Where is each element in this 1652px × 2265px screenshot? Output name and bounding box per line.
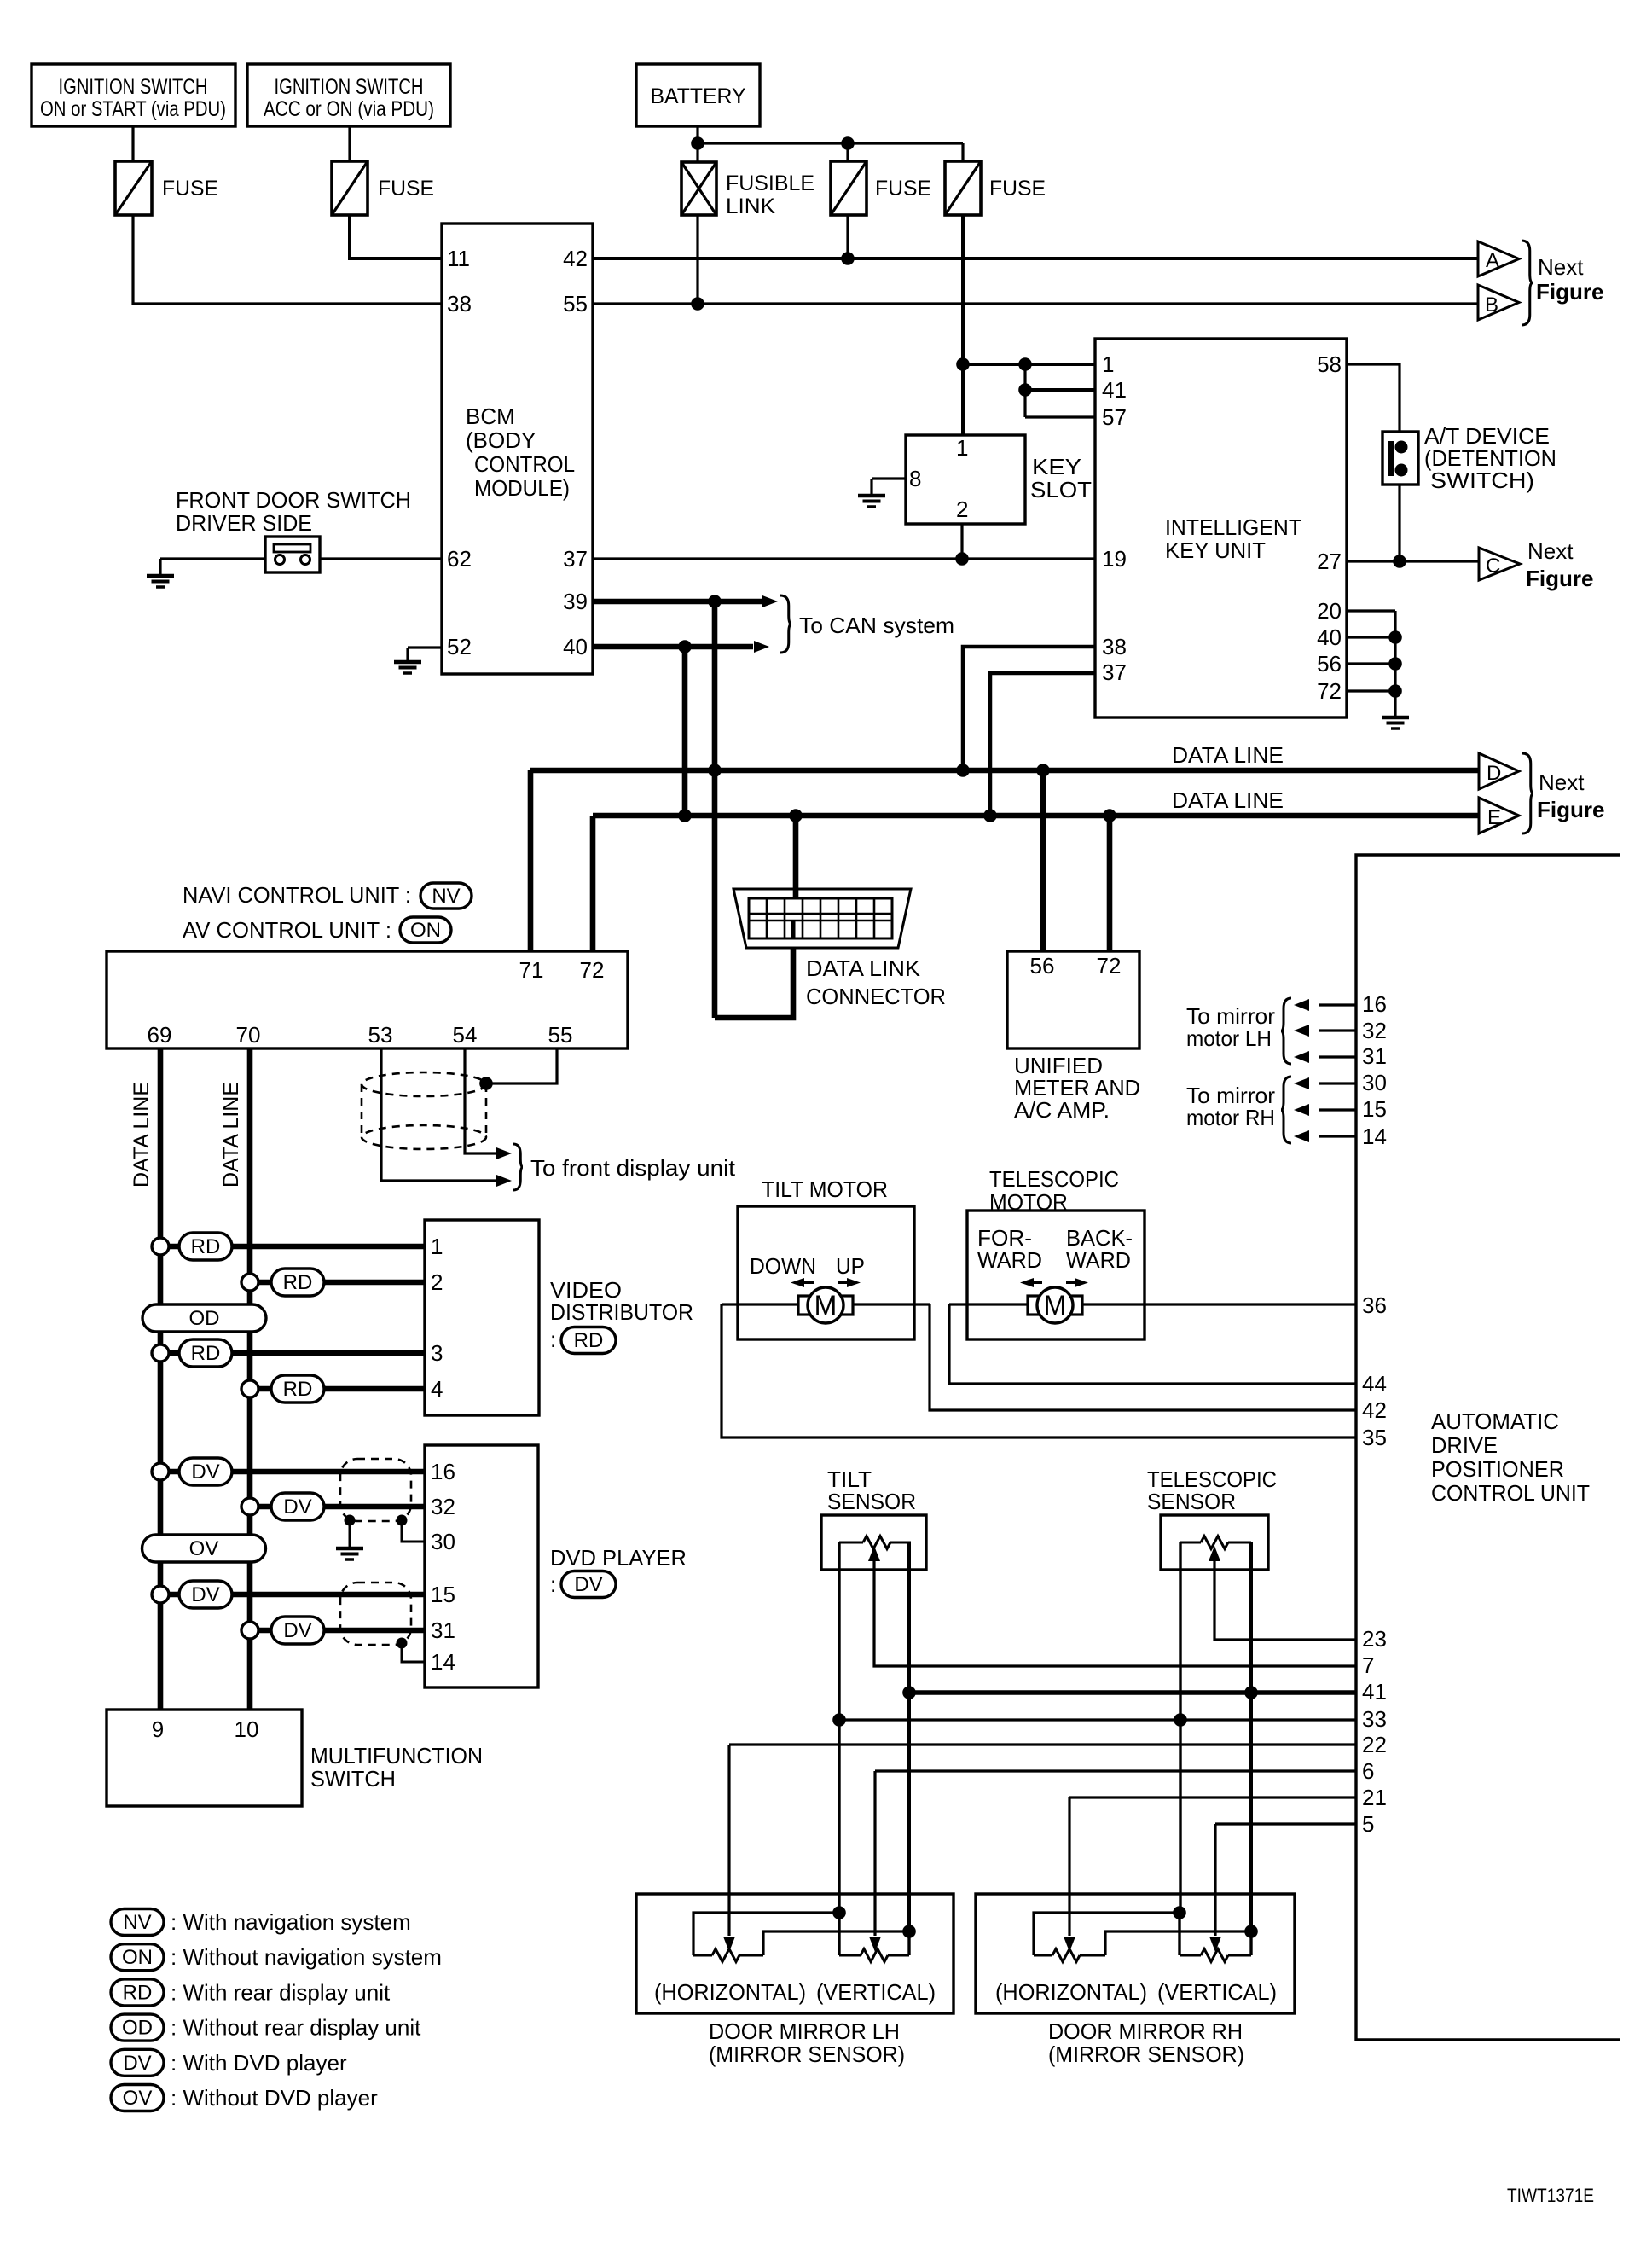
svg-text:57: 57 (1102, 404, 1127, 430)
wire 6: ADP to LH vertical wiper (875, 1769, 1356, 1772)
svg-text:19: 19 (1102, 546, 1127, 572)
wire: telescopic motor to ADP pin 44 (949, 1304, 1356, 1384)
svg-text:14: 14 (1362, 1124, 1387, 1149)
svg-text:72: 72 (1097, 953, 1122, 979)
arrow forward direction (1020, 1278, 1034, 1287)
door mirror LH box (636, 1894, 954, 2013)
svg-text:37: 37 (1102, 659, 1127, 685)
node: junction on CAN 40 (678, 640, 692, 653)
wire 33: sensor supply to ADP (838, 1718, 1356, 1721)
svg-text:38: 38 (1102, 634, 1127, 659)
svg-text:40: 40 (1317, 624, 1342, 650)
svg-text:54: 54 (453, 1022, 478, 1048)
wire: to IKU pin 41 (1025, 388, 1095, 392)
wire A: BCM pin 42 to next figure (593, 257, 1478, 260)
svg-text:motor RH: motor RH (1186, 1105, 1275, 1130)
LH vertical wiper arrow (869, 1937, 881, 1952)
svg-text:7: 7 (1362, 1652, 1374, 1678)
svg-text:SLOT: SLOT (1030, 477, 1092, 502)
ground: IKU pins (1382, 716, 1409, 720)
svg-text:BCM: BCM (466, 404, 515, 429)
svg-text:35: 35 (1362, 1425, 1387, 1450)
svg-text:55: 55 (548, 1022, 573, 1048)
svg-text:16: 16 (431, 1459, 455, 1484)
motor M telescopic (1028, 1296, 1040, 1315)
node: junctions on data line E (678, 809, 692, 822)
wire 27: IKU to next figure C (1347, 560, 1479, 562)
svg-text:NV: NV (432, 885, 460, 908)
svg-text:11: 11 (447, 246, 470, 271)
svg-text:MODULE): MODULE) (474, 475, 570, 501)
LH horizontal wiper arrow (723, 1937, 735, 1952)
svg-text:A/C AMP.: A/C AMP. (1014, 1097, 1110, 1123)
LH pot right link (763, 1931, 909, 1955)
brace: to mirror motor RH (1281, 1077, 1291, 1143)
svg-text:WARD: WARD (1066, 1247, 1131, 1273)
svg-text:41: 41 (1102, 377, 1127, 403)
wire: BCM pin 40 CAN line with arrow (593, 644, 753, 650)
svg-text:TELESCOPIC: TELESCOPIC (989, 1166, 1119, 1192)
wire 7: tilt wiper to ADP (874, 1561, 1356, 1666)
svg-text:53: 53 (368, 1022, 393, 1048)
wire: A/T device to wire 27 (1398, 485, 1400, 561)
fuse F1 (115, 161, 152, 215)
wire 55: AV unit to shield (486, 1048, 557, 1083)
svg-text:FUSIBLE: FUSIBLE (726, 171, 814, 195)
svg-text:23: 23 (1362, 1626, 1387, 1652)
svg-text:Figure: Figure (1537, 797, 1604, 822)
svg-text:15: 15 (431, 1582, 455, 1607)
svg-text:15: 15 (1362, 1096, 1387, 1122)
wires: IKU pins 20/40/56/72 to ground (1347, 609, 1395, 612)
RH: supply link wire (1034, 1913, 1180, 1955)
svg-text:ON: ON (410, 919, 441, 942)
svg-text:IGNITION SWITCH: IGNITION SWITCH (275, 75, 424, 99)
LH vertical potentiometer (838, 1913, 840, 1955)
svg-text:21: 21 (1362, 1785, 1387, 1810)
svg-text:DATA LINK: DATA LINK (806, 955, 921, 981)
telescopic motor box (967, 1211, 1145, 1339)
svg-text:1: 1 (431, 1234, 443, 1259)
node: shield to pin 30 tap (397, 1515, 408, 1526)
tilt sensor box (821, 1515, 926, 1570)
svg-text:CONTROL UNIT: CONTROL UNIT (1431, 1480, 1590, 1506)
svg-text:KEY UNIT: KEY UNIT (1165, 537, 1266, 563)
telescopic sensor box (1161, 1515, 1268, 1570)
multifunction switch box (107, 1710, 302, 1806)
wire 69: AV unit to multifunction switch pin 9 (158, 1048, 164, 1710)
node: ground bus junctions (1388, 630, 1402, 644)
svg-text:Figure: Figure (1536, 279, 1603, 305)
data line E (593, 813, 1478, 819)
svg-text:E: E (1487, 806, 1501, 829)
label: data line vertical 69 (130, 1082, 154, 1188)
svg-text:2: 2 (431, 1269, 443, 1295)
wire: IKU pin 37 to data line E (990, 673, 1095, 816)
svg-text:31: 31 (431, 1617, 455, 1643)
unified meter and a/c amp box (1007, 951, 1139, 1048)
arrow D to next figure (1479, 753, 1519, 789)
option oval NV (420, 883, 472, 909)
svg-text:9: 9 (152, 1716, 164, 1742)
wire: tilt motor leads (722, 1303, 798, 1305)
svg-text:1: 1 (1102, 351, 1114, 377)
svg-text:B: B (1485, 293, 1498, 317)
branch DV to DVD player pin 15 (152, 1586, 169, 1603)
telescopic sensor potentiometer (1180, 1542, 1201, 1544)
svg-text:44: 44 (1362, 1371, 1387, 1397)
svg-text:: Without DVD player: : Without DVD player (171, 2085, 378, 2111)
RH horizontal potentiometer (1034, 1954, 1052, 1957)
A/T device (detention switch) box (1382, 432, 1418, 485)
RH vertical potentiometer (1178, 1913, 1180, 1955)
branch DV to DVD player pin 16 (152, 1463, 169, 1480)
svg-text:C: C (1486, 555, 1500, 578)
svg-text:(VERTICAL): (VERTICAL) (1157, 1979, 1277, 2005)
wire: BCM 37 to key slot 2 / intelligent key unit 19 (593, 557, 1095, 560)
wire B: BCM pin 55 to next figure (593, 302, 1478, 305)
svg-text:3: 3 (431, 1340, 443, 1366)
svg-text::: : (550, 1571, 556, 1597)
svg-text:OD: OD (189, 1307, 220, 1330)
svg-text:32: 32 (1362, 1018, 1387, 1043)
svg-text:10: 10 (235, 1716, 259, 1742)
svg-text:OD: OD (122, 2017, 153, 2040)
wire 41: sensor supply to ADP (909, 1690, 1356, 1695)
svg-text:ON: ON (122, 1946, 153, 1969)
svg-text:M: M (814, 1290, 838, 1321)
wire: data line E to unified meter pin 72 (1107, 816, 1113, 951)
svg-text:DOOR MIRROR RH: DOOR MIRROR RH (1048, 2018, 1243, 2044)
arrow A to next figure (1478, 241, 1519, 276)
wire: BCM pin 52 to ground (408, 646, 442, 648)
option oval ON (400, 917, 451, 943)
arrow down direction (791, 1278, 804, 1287)
svg-text:RD: RD (574, 1329, 604, 1352)
svg-text:33: 33 (1362, 1706, 1387, 1732)
svg-text:KEY: KEY (1032, 454, 1081, 479)
svg-text:DV: DV (283, 1495, 311, 1519)
svg-text:: Without navigation system: : Without navigation system (171, 1944, 442, 1970)
legend oval ON (111, 1944, 164, 1971)
wire: telescopic motor to ADP pin 36 (1082, 1303, 1356, 1305)
legend oval OV (111, 2085, 164, 2111)
svg-text:56: 56 (1317, 651, 1342, 677)
data link connector symbol (733, 889, 911, 948)
wire: tilt motor to ADP pin 42 (930, 1304, 1356, 1410)
wire 70: AV unit to multifunction switch pin 10 (247, 1048, 253, 1710)
video distributor box (425, 1220, 539, 1415)
svg-text:UP: UP (836, 1253, 865, 1279)
svg-text:(HORIZONTAL): (HORIZONTAL) (995, 1979, 1147, 2005)
svg-text:WARD: WARD (977, 1247, 1042, 1273)
node: wire41 junctions (902, 1686, 916, 1699)
svg-text:DRIVER SIDE: DRIVER SIDE (176, 510, 312, 536)
svg-text:31: 31 (1362, 1043, 1387, 1069)
svg-text:27: 27 (1317, 549, 1342, 574)
RH vertical wiper arrow (1209, 1937, 1221, 1952)
svg-text:LINK: LINK (726, 195, 775, 218)
intelligent key unit box (1095, 339, 1347, 717)
wire 21: ADP to RH horizontal wiper (1069, 1796, 1356, 1798)
svg-text:30: 30 (1362, 1070, 1387, 1095)
node: wire33 junctions (832, 1713, 846, 1727)
svg-text:OV: OV (189, 1537, 219, 1560)
node: shield junction (479, 1077, 493, 1090)
svg-text:72: 72 (580, 957, 605, 983)
svg-text:RD: RD (191, 1235, 221, 1258)
fuse F3 (831, 161, 867, 215)
ground: BCM pin 52 (394, 660, 421, 665)
svg-text:14: 14 (431, 1649, 455, 1675)
svg-text:CONTROL: CONTROL (474, 451, 575, 477)
branch DV to DVD player pin 32 (241, 1498, 258, 1515)
tilt motor box (738, 1206, 914, 1339)
svg-text:INTELLIGENT: INTELLIGENT (1165, 514, 1301, 540)
legend oval DV (111, 2049, 164, 2076)
wire: shield to DVD pin 30 (402, 1520, 425, 1542)
svg-text:DISTRIBUTOR: DISTRIBUTOR (550, 1299, 693, 1325)
node: key slot pin 2 junction (955, 552, 969, 566)
node: shield ground tap (345, 1515, 356, 1526)
wires: to mirror motor RH pins 30/15/14 (1319, 1082, 1356, 1084)
option oval DV label (561, 1571, 616, 1598)
svg-text:38: 38 (447, 291, 472, 317)
wire: telescopic motor leads (949, 1303, 1028, 1305)
legend oval OD (111, 2014, 164, 2041)
node: junction on wire 27 (1393, 555, 1406, 568)
arrow C to next figure (1479, 548, 1520, 580)
svg-text:42: 42 (1362, 1397, 1387, 1423)
svg-text:30: 30 (431, 1529, 455, 1554)
wire 53 through shield to front display (381, 1048, 496, 1181)
svg-text:70: 70 (236, 1022, 261, 1048)
svg-text:8: 8 (909, 466, 921, 491)
node: RH right link junction (1244, 1925, 1258, 1938)
wire: fuse F1 to BCM pin 38 (133, 215, 442, 304)
svg-text:FUSE: FUSE (989, 177, 1046, 200)
branch RD to video distributor pin 1 (152, 1238, 169, 1255)
branch RD to video distributor pin 4 (241, 1380, 258, 1397)
wire: IKU pin 58 to A/T device (1347, 364, 1400, 432)
svg-text:FUSE: FUSE (162, 177, 218, 200)
arrow B to next figure (1478, 285, 1519, 320)
shield around DVD 15/31 (dashed) (340, 1583, 411, 1645)
svg-text:DVD PLAYER: DVD PLAYER (550, 1545, 687, 1571)
svg-text:4: 4 (431, 1376, 443, 1402)
node: junction at fuse F3 top (841, 136, 855, 150)
AV/NAVI control unit box (107, 951, 628, 1048)
fuse F4 (961, 143, 964, 161)
node: LH supply junction (832, 1906, 846, 1919)
arrow E to next figure (1479, 798, 1519, 833)
svg-text:FUSE: FUSE (875, 177, 931, 200)
svg-text:motor LH: motor LH (1186, 1025, 1272, 1051)
wire: CAN 39 drop to data line D and data link connector (712, 601, 718, 1018)
svg-text:RD: RD (123, 1981, 153, 2004)
svg-text:55: 55 (563, 291, 588, 317)
svg-text:Figure: Figure (1526, 566, 1593, 591)
wire: drop to pin 41/57 (1023, 364, 1026, 417)
battery box (636, 64, 760, 126)
node: LH right link junction (902, 1925, 916, 1938)
BCM (body control module) box (442, 224, 593, 674)
wire: tilt sensor left lead down (838, 1542, 840, 1913)
wire: key slot pin 8 to ground (872, 477, 906, 479)
svg-text:DATA LINE: DATA LINE (130, 1082, 154, 1188)
arrow backward direction (1075, 1278, 1088, 1287)
svg-text:NAVI CONTROL UNIT :: NAVI CONTROL UNIT : (183, 882, 411, 908)
svg-text:: With navigation system: : With navigation system (171, 1909, 411, 1935)
svg-text::: : (550, 1327, 556, 1352)
wire: ignition 1 to fuse F1 (131, 126, 134, 161)
svg-text:DATA LINE: DATA LINE (219, 1082, 243, 1188)
svg-text:SWITCH: SWITCH (310, 1766, 396, 1792)
svg-text:DV: DV (283, 1619, 311, 1642)
svg-text:FRONT DOOR SWITCH: FRONT DOOR SWITCH (176, 487, 411, 513)
svg-text:ACC or ON (via PDU): ACC or ON (via PDU) (264, 97, 434, 121)
svg-text:DV: DV (191, 1583, 219, 1606)
wire: junction to IKU pin 1 (963, 363, 1095, 366)
svg-text:To front display unit: To front display unit (530, 1155, 736, 1181)
fusible link (681, 162, 716, 215)
wire: to IKU pin 57 (1025, 415, 1095, 418)
front door switch symbol (265, 537, 320, 572)
svg-text:TILT MOTOR: TILT MOTOR (762, 1176, 888, 1202)
wire: data link connector return to data line D (715, 921, 793, 1018)
svg-text:58: 58 (1317, 351, 1342, 377)
ground: door switch (159, 559, 161, 576)
svg-text:72: 72 (1317, 678, 1342, 704)
wire 5: ADP to RH vertical wiper (1215, 1822, 1356, 1825)
node: junction to intelligent key unit pin 1 (956, 357, 970, 371)
svg-text:DV: DV (574, 1573, 602, 1596)
svg-text:AUTOMATIC: AUTOMATIC (1431, 1408, 1559, 1434)
svg-text:62: 62 (447, 546, 472, 572)
wire 23: telescopic wiper to ADP (1214, 1561, 1356, 1640)
wire: ground to door switch (160, 557, 265, 560)
svg-text:FUSE: FUSE (378, 177, 434, 200)
wire: key slot pin 2 drop (960, 524, 963, 559)
ground: key slot pin 8 (858, 494, 885, 498)
wire: data line E drop to AV control unit pin 72 (590, 816, 596, 951)
svg-text:6: 6 (1362, 1758, 1374, 1784)
svg-text:NV: NV (123, 1911, 151, 1934)
svg-text:DATA LINE: DATA LINE (1172, 787, 1284, 813)
wire 54 through shield to front display (465, 1048, 496, 1153)
svg-text:RD: RD (283, 1378, 313, 1401)
svg-text:41: 41 (1362, 1679, 1387, 1705)
fuse F2 (332, 161, 368, 215)
svg-text:SENSOR: SENSOR (827, 1489, 916, 1514)
node: junctions on data line D (708, 764, 722, 777)
node: junction pin41 (1018, 383, 1032, 397)
LH: supply link wire (693, 1913, 839, 1955)
svg-text:DATA LINE: DATA LINE (1172, 742, 1284, 768)
wire: tilt sensor right lead down (907, 1542, 911, 1931)
svg-text:36: 36 (1362, 1292, 1387, 1318)
brace: to front display unit (513, 1144, 523, 1190)
wire: telescopic sensor left lead down (1179, 1542, 1181, 1913)
svg-text:5: 5 (1362, 1811, 1374, 1837)
wire: shield to DVD pin 14 (402, 1643, 425, 1662)
branch RD to video distributor pin 3 (152, 1344, 169, 1362)
svg-text:22: 22 (1362, 1732, 1387, 1757)
RH horizontal wiper arrow (1064, 1937, 1075, 1952)
wire: data line E to data link connector (793, 816, 799, 900)
svg-text:IGNITION SWITCH: IGNITION SWITCH (59, 75, 208, 99)
svg-text:16: 16 (1362, 991, 1387, 1017)
branch RD to video distributor pin 2 (241, 1274, 258, 1291)
shield cylinder (dashed) (362, 1072, 486, 1096)
legend oval NV (111, 1909, 164, 1936)
svg-text:DRIVE: DRIVE (1431, 1432, 1498, 1458)
svg-text:M: M (1044, 1290, 1067, 1321)
wire: data line D to unified meter pin 56 (1040, 770, 1046, 951)
svg-text:Next: Next (1538, 254, 1584, 280)
wire: IKU pin 38 to data line D (963, 647, 1095, 770)
node: battery junction (691, 136, 704, 150)
automatic drive positioner control unit box (open right) (1356, 855, 1620, 2040)
branch DV to DVD player pin 31 (241, 1622, 258, 1639)
node: junction on CAN 39 (708, 595, 722, 608)
wire: ignition 2 to fuse F2 (348, 126, 351, 161)
wire 22: ADP to LH horizontal wiper (729, 1743, 1356, 1745)
brace: next figure D/E (1522, 753, 1533, 833)
svg-text:AV CONTROL UNIT :: AV CONTROL UNIT : (183, 917, 391, 943)
wire: fuse F3 to wire 42 (846, 215, 849, 258)
svg-text:40: 40 (563, 634, 588, 659)
shield around DVD 16/32 (dashed) (340, 1459, 411, 1521)
svg-text:: With DVD player: : With DVD player (171, 2050, 347, 2076)
svg-text:BATTERY: BATTERY (651, 84, 746, 108)
ignition switch source 1 box (32, 64, 235, 126)
svg-text:DOOR MIRROR LH: DOOR MIRROR LH (709, 2018, 900, 2044)
svg-text:20: 20 (1317, 598, 1342, 624)
wire: tilt motor to ADP pin 35 (722, 1304, 1356, 1437)
svg-text:(VERTICAL): (VERTICAL) (816, 1979, 936, 2005)
option oval OD (across both data lines) (142, 1304, 266, 1332)
legend oval RD (111, 1979, 164, 2006)
svg-text:56: 56 (1030, 953, 1055, 979)
node: junction on wire 55 (691, 297, 704, 311)
svg-text:CONNECTOR: CONNECTOR (806, 984, 946, 1009)
svg-text:(MIRROR SENSOR): (MIRROR SENSOR) (1048, 2041, 1244, 2067)
node: junction on wire 42 (841, 252, 855, 265)
node: shield to pin 14 tap (397, 1638, 408, 1649)
brace: next figure A/B (1522, 241, 1533, 325)
wire: feed to fuse F3 (846, 143, 849, 161)
svg-text:71: 71 (519, 957, 544, 983)
wire: telescopic sensor right lead down (1249, 1542, 1253, 1931)
wire: BCM pin 39 CAN line with arrow (593, 599, 762, 605)
svg-text:37: 37 (563, 546, 588, 572)
svg-text:2: 2 (956, 497, 968, 522)
svg-text:POSITIONER: POSITIONER (1431, 1456, 1564, 1482)
svg-text:To CAN system: To CAN system (799, 613, 954, 638)
DVD player box (425, 1445, 538, 1687)
option oval RD label (561, 1327, 616, 1354)
wire: fuse F2 to BCM pin 11 (350, 215, 442, 258)
tilt sensor potentiometer (839, 1542, 863, 1544)
ignition switch source 2 box (247, 64, 450, 126)
svg-text:52: 52 (447, 634, 472, 659)
svg-text:Next: Next (1527, 538, 1574, 564)
node: junction pin1/41 (1018, 357, 1032, 371)
svg-text:39: 39 (563, 589, 588, 614)
svg-text:RD: RD (283, 1271, 313, 1294)
wire: data line D drop to AV control unit pin 71 (528, 770, 534, 951)
